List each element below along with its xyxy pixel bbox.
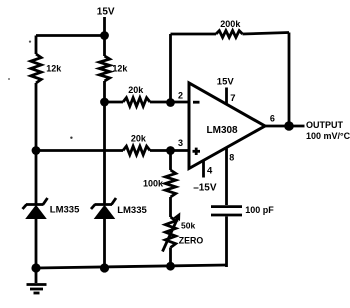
- svg-text:50k: 50k: [181, 221, 195, 231]
- svg-text:6: 6: [270, 114, 275, 124]
- svg-text:LM308: LM308: [207, 125, 239, 136]
- svg-text:20k: 20k: [131, 134, 147, 144]
- svg-text:4: 4: [207, 166, 213, 177]
- svg-text:LM335: LM335: [117, 205, 147, 216]
- svg-text:7: 7: [230, 93, 235, 104]
- svg-text:2: 2: [178, 90, 183, 100]
- svg-text:100 pF: 100 pF: [245, 205, 274, 215]
- svg-text:200k: 200k: [220, 19, 241, 29]
- svg-text:8: 8: [229, 153, 234, 163]
- svg-text:12k: 12k: [112, 64, 128, 74]
- svg-text:12k: 12k: [46, 64, 62, 74]
- svg-text:15V: 15V: [97, 6, 115, 17]
- svg-text:20k: 20k: [128, 85, 144, 95]
- svg-text:3: 3: [178, 138, 183, 148]
- svg-text:ZERO: ZERO: [179, 235, 204, 245]
- svg-text:OUTPUT: OUTPUT: [306, 120, 344, 130]
- svg-text:100 mV/°C: 100 mV/°C: [306, 131, 350, 141]
- svg-text:15V: 15V: [217, 77, 235, 88]
- svg-text:100k: 100k: [143, 178, 164, 188]
- svg-text:–15V: –15V: [193, 183, 217, 194]
- svg-text:LM335: LM335: [50, 205, 80, 216]
